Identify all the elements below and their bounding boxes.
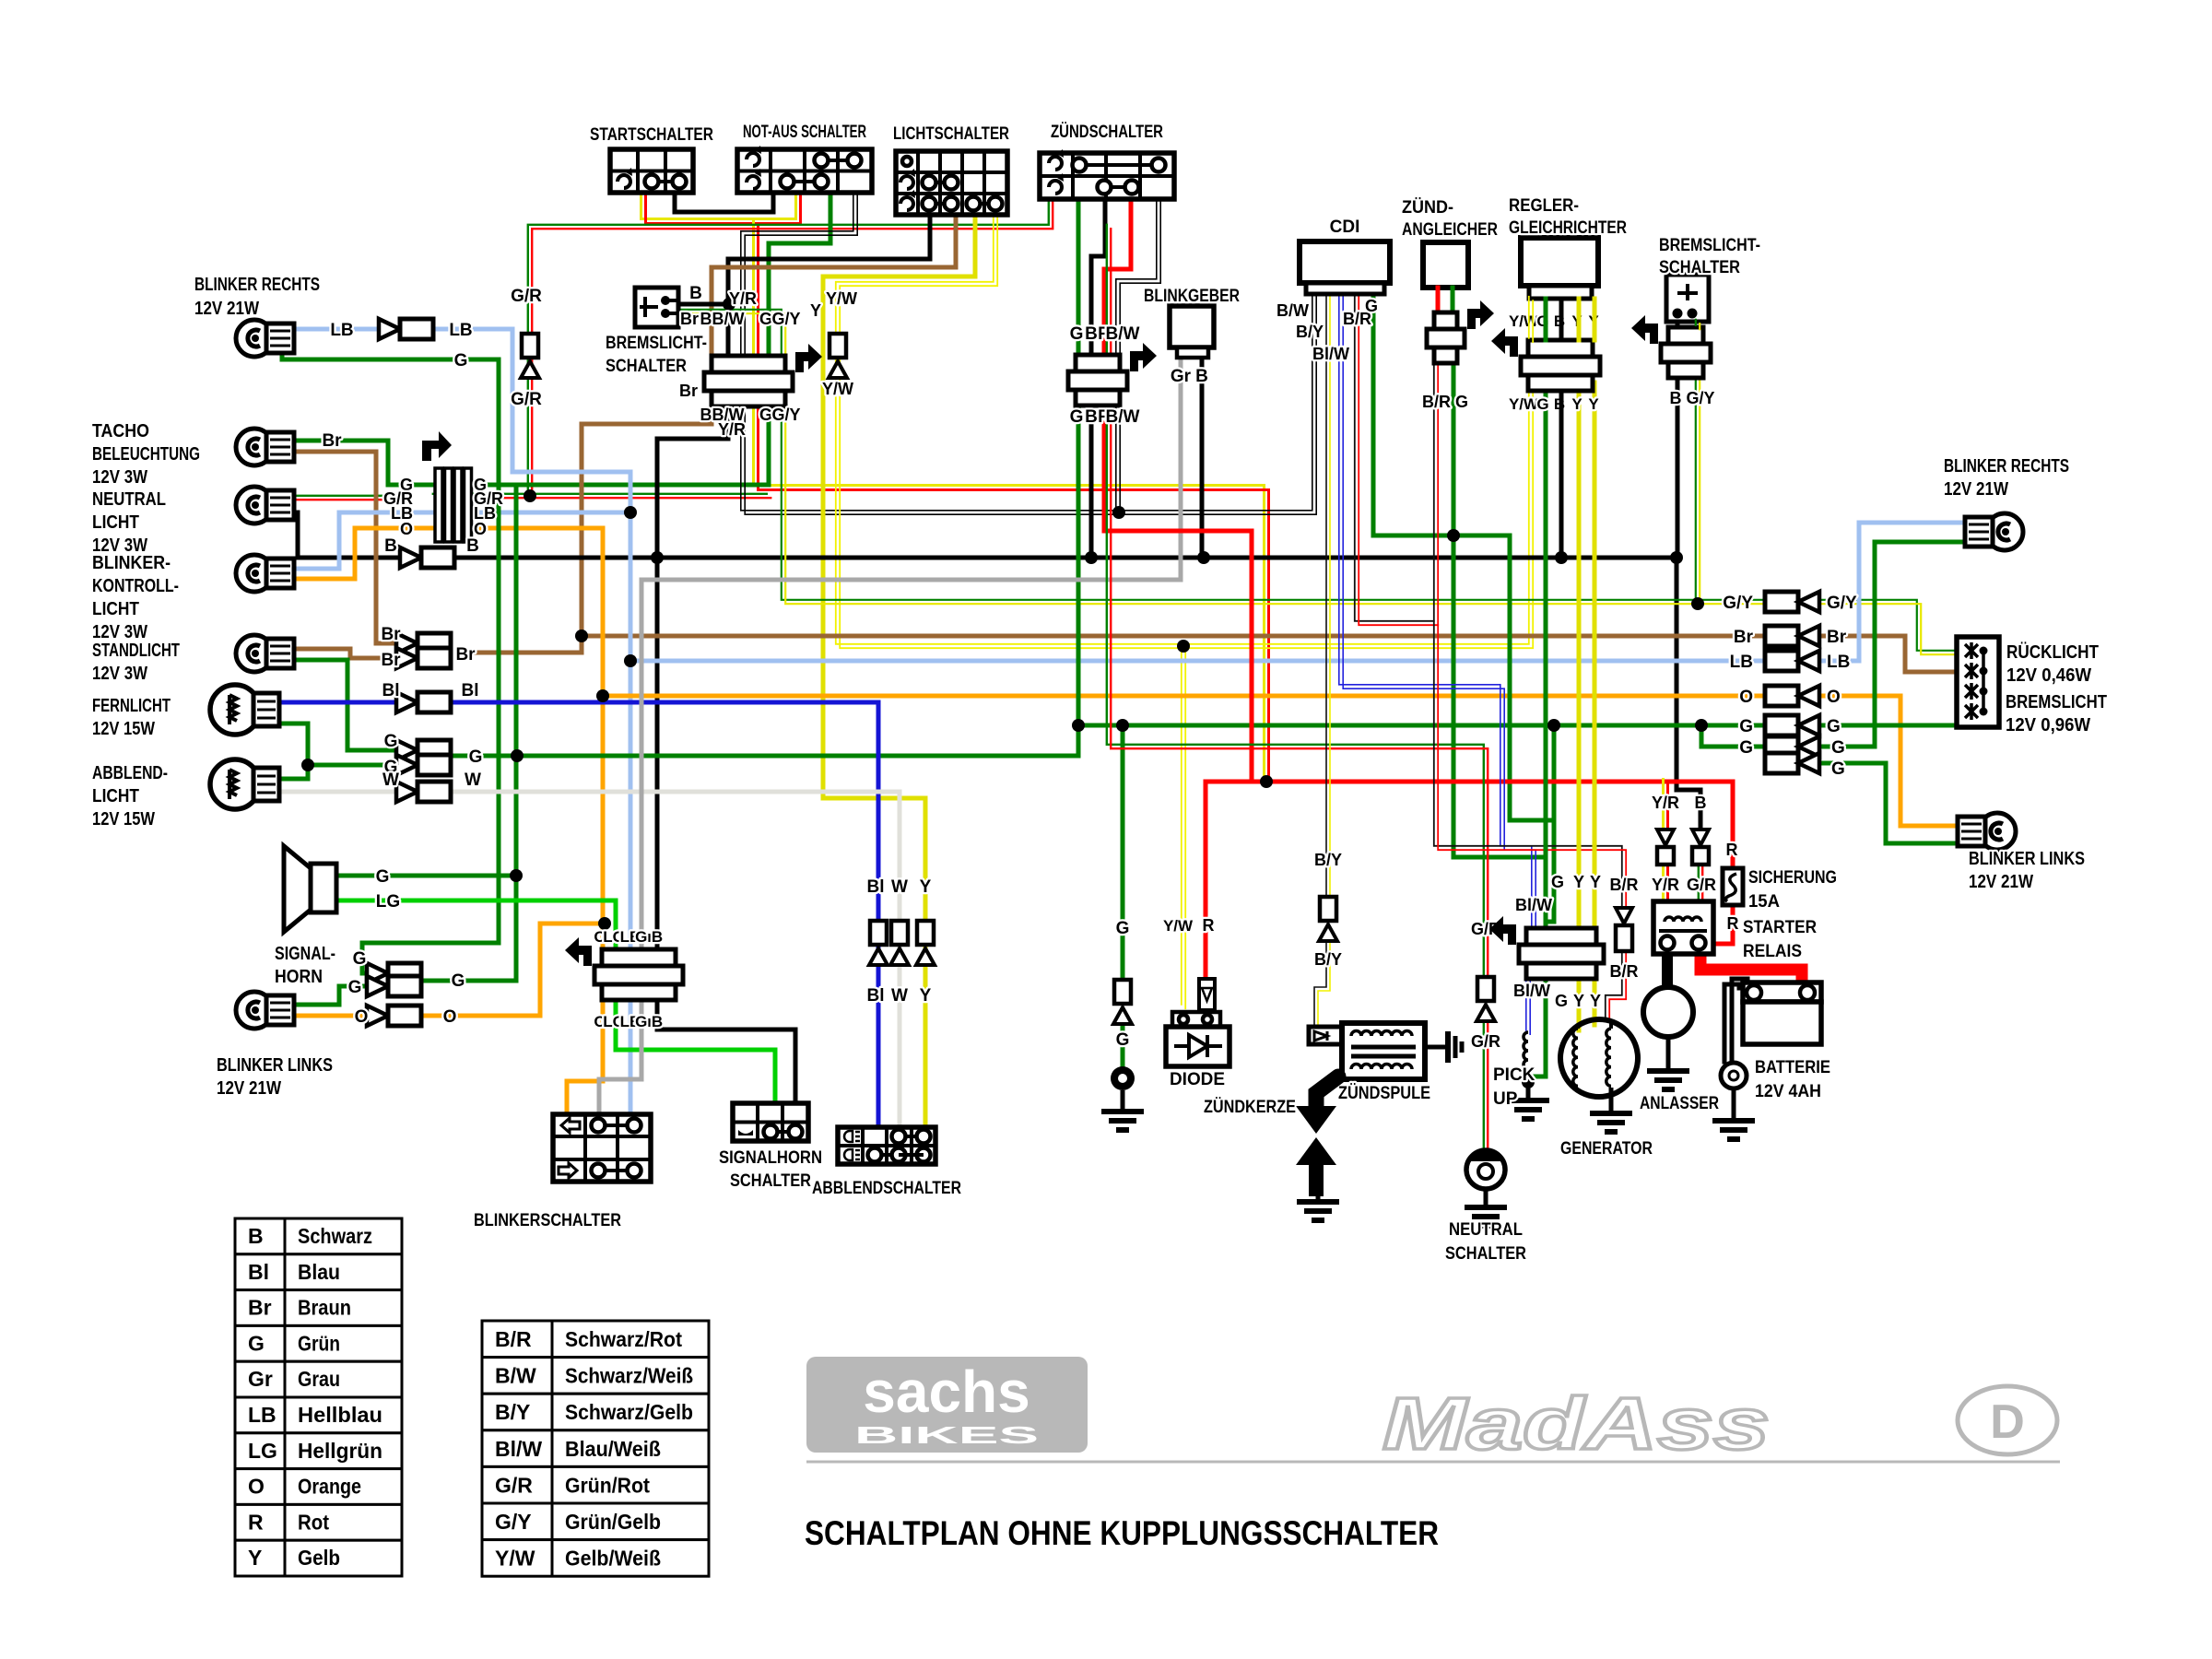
wire R branch to diode (1206, 780, 1266, 784)
svg-text:BREMSLICHT: BREMSLICHT (2006, 692, 2107, 712)
svg-text:SCHALTER: SCHALTER (1659, 258, 1740, 277)
connector LB inline (379, 319, 400, 339)
wire G tacho (276, 441, 435, 485)
svg-text:BELEUCHTUNG: BELEUCHTUNG (92, 444, 200, 465)
connector B inline (400, 547, 421, 568)
lamp FERNLICHT (210, 685, 260, 735)
wire O blinker-kontroll to connector (276, 528, 435, 579)
svg-text:W: W (465, 771, 481, 790)
svg-text:Br: Br (381, 651, 401, 670)
wire LB blinker rechts (276, 327, 391, 332)
wire B/W zuendschalter drop (1116, 197, 1157, 511)
svg-text:Y: Y (920, 877, 932, 897)
connector handlebar 5pin (712, 356, 785, 372)
lamp BLINKER LINKS right (1979, 813, 2016, 850)
wire G fernlicht-abblend (276, 724, 308, 779)
svg-text:Y/W: Y/W (826, 289, 857, 308)
svg-text:G: G (348, 978, 362, 997)
svg-text:Y: Y (1590, 992, 1601, 1010)
connector anglicher (1434, 312, 1457, 329)
svg-text:Y: Y (248, 1546, 262, 1570)
component NEUTRAL SCHALTER (1466, 1150, 1505, 1189)
wire Br trunk (465, 636, 1767, 653)
lamp BLINKER-KONTROLL-LICHT (236, 555, 273, 592)
svg-text:G/Y: G/Y (1723, 594, 1753, 613)
svg-text:STARTER: STARTER (1743, 918, 1817, 937)
connector B/R column (1616, 908, 1632, 924)
connector G double horn (367, 963, 388, 983)
svg-text:D: D (1990, 1395, 2025, 1449)
svg-text:TACHO: TACHO (92, 421, 149, 441)
svg-text:Br: Br (381, 625, 401, 644)
svg-text:Bl: Bl (248, 1260, 269, 1284)
svg-text:Br: Br (679, 382, 698, 400)
svg-text:B/R: B/R (1610, 962, 1639, 981)
svg-text:Schwarz: Schwarz (298, 1224, 372, 1248)
wire Y/W branch to diode (1181, 644, 1182, 1005)
svg-text:BLINKER RECHTS: BLINKER RECHTS (194, 275, 320, 295)
wire LG horn to signalhorn switch (336, 900, 775, 1103)
svg-text:12V 0,96W: 12V 0,96W (2006, 715, 2090, 735)
wire R anglicher upper (1436, 288, 1441, 313)
svg-text:Y/W: Y/W (495, 1547, 535, 1571)
svg-text:Y: Y (1573, 992, 1584, 1010)
svg-text:LB: LB (449, 321, 472, 340)
svg-text:Rot: Rot (298, 1510, 329, 1534)
svg-text:Y/W: Y/W (822, 380, 853, 398)
svg-text:Blau/Weiß: Blau/Weiß (565, 1437, 661, 1461)
svg-text:SICHERUNG: SICHERUNG (1748, 868, 1837, 888)
svg-text:Schwarz/Gelb: Schwarz/Gelb (565, 1400, 693, 1424)
wire R zuendschalter to fuse (1104, 269, 1733, 868)
svg-text:Braun: Braun (298, 1296, 351, 1320)
wire G blinker rechts long (282, 348, 499, 973)
component GENERATOR (1560, 1019, 1638, 1097)
svg-text:G: G (1831, 759, 1845, 779)
component RUECKLICHT-BREMSLICHT box (1957, 637, 1999, 727)
svg-text:Schwarz/Weiß: Schwarz/Weiß (565, 1364, 693, 1388)
svg-text:G/Y: G/Y (1827, 594, 1857, 613)
svg-text:LICHTSCHALTER: LICHTSCHALTER (893, 124, 1009, 144)
svg-text:G: G (759, 310, 772, 328)
svg-text:G: G (1739, 717, 1753, 736)
svg-text:G/Y: G/Y (1686, 389, 1714, 407)
svg-text:LG: LG (376, 892, 400, 912)
svg-text:B: B (1670, 389, 1682, 407)
svg-text:Br: Br (455, 645, 476, 665)
wire B/Y CDI to zuendspule (1325, 292, 1327, 895)
svg-text:BLINKGEBER: BLINKGEBER (1144, 287, 1240, 306)
svg-text:G: G (454, 351, 468, 371)
wire R diode drop (1204, 782, 1208, 979)
svg-text:Grün/Rot: Grün/Rot (565, 1473, 650, 1497)
svg-text:B/Y: B/Y (1314, 851, 1342, 869)
svg-text:Y: Y (810, 301, 821, 320)
lamp NEUTRAL LICHT (236, 487, 273, 524)
component BLINKGEBER (1170, 306, 1214, 347)
svg-text:RÜCKLICHT: RÜCKLICHT (2006, 641, 2099, 663)
svg-text:Y/W: Y/W (1509, 395, 1539, 413)
wire B bremslicht-schalter left (678, 302, 728, 307)
svg-text:12V 0,46W: 12V 0,46W (2006, 665, 2091, 686)
svg-text:12V 3W: 12V 3W (92, 664, 147, 684)
switch NOT-AUS SCHALTER (737, 149, 872, 193)
svg-text:O: O (400, 520, 413, 538)
wire B regler to trunk (1559, 299, 1564, 340)
svg-text:G: G (1551, 873, 1564, 891)
svg-text:Bl: Bl (462, 681, 479, 700)
svg-text:12V 15W: 12V 15W (92, 719, 155, 739)
connector Bl inline (396, 692, 418, 712)
svg-text:B/W: B/W (1106, 324, 1140, 344)
wire G notaus down (470, 193, 830, 485)
svg-text:G: G (1739, 738, 1753, 758)
svg-text:LB: LB (248, 1403, 276, 1427)
connector G ground inline (1114, 980, 1131, 1004)
svg-text:Bl: Bl (867, 877, 885, 897)
component STARTER RELAIS (1653, 901, 1713, 954)
svg-text:G: G (759, 406, 772, 424)
svg-text:BLINKER RECHTS: BLINKER RECHTS (1944, 456, 2069, 477)
svg-text:STANDLICHT: STANDLICHT (92, 641, 180, 661)
wire B/R CDI to anglicher net (1355, 292, 1434, 621)
svg-text:R: R (1727, 914, 1739, 933)
svg-text:Blau: Blau (298, 1260, 340, 1284)
svg-text:G: G (1555, 992, 1568, 1010)
svg-text:Grün/Gelb: Grün/Gelb (565, 1510, 661, 1534)
svg-text:G/R: G/R (1687, 876, 1716, 894)
svg-text:G/R: G/R (511, 287, 542, 306)
svg-text:SIGNALHORN: SIGNALHORN (719, 1148, 822, 1168)
connector generator harness (1526, 928, 1596, 945)
svg-text:Gelb/Weiß: Gelb/Weiß (565, 1547, 661, 1571)
wire B startschalter-notaus link (675, 193, 773, 212)
svg-text:B/R: B/R (1610, 876, 1639, 894)
lamp TACHO BELEUCHTUNG (236, 429, 273, 465)
connector G double right (1765, 736, 1798, 757)
connectors right column inline (1765, 592, 1798, 612)
svg-text:Bl/W: Bl/W (495, 1437, 542, 1461)
svg-text:B: B (248, 1224, 264, 1248)
svg-text:G/Y: G/Y (495, 1510, 532, 1534)
svg-text:LB: LB (1827, 653, 1850, 672)
svg-text:12V 15W: 12V 15W (92, 809, 155, 829)
svg-text:B/Y: B/Y (1296, 323, 1324, 341)
junction dots (524, 489, 536, 502)
wire G zuendschalter-CDI net (1373, 294, 1554, 820)
component DIODE (1172, 1012, 1220, 1027)
wire G anglicher down (1453, 363, 1546, 857)
wire thick R battery cable (1700, 951, 1802, 988)
svg-text:ANLASSER: ANLASSER (1640, 1094, 1719, 1113)
svg-text:LICHT: LICHT (92, 599, 139, 619)
connector W inline (396, 782, 418, 802)
wire G/Y trunk (677, 310, 1765, 600)
svg-text:SIGNAL-: SIGNAL- (275, 944, 335, 964)
svg-text:SCHALTER: SCHALTER (1445, 1244, 1526, 1264)
svg-text:R: R (1203, 916, 1215, 935)
component BLINKERSCHALTER (553, 1114, 651, 1182)
svg-text:G: G (1827, 717, 1841, 736)
svg-text:ANGLEICHER: ANGLEICHER (1402, 220, 1498, 240)
svg-text:LG: LG (248, 1439, 277, 1463)
svg-text:Bl/W: Bl/W (1515, 896, 1552, 914)
connector harness OLGLBGrB (602, 949, 676, 966)
svg-text:UP: UP (1493, 1089, 1518, 1109)
lamp ABBLEND-LICHT (210, 759, 260, 809)
svg-text:STARTSCHALTER: STARTSCHALTER (590, 125, 713, 145)
svg-text:G: G (376, 867, 390, 887)
svg-text:Grün: Grün (298, 1331, 340, 1355)
svg-text:PICK: PICK (1493, 1065, 1535, 1085)
svg-text:G/Y: G/Y (771, 406, 800, 424)
svg-text:Bl: Bl (382, 681, 400, 700)
svg-text:B/R G: B/R G (1422, 393, 1468, 411)
svg-text:ZÜNDSPULE: ZÜNDSPULE (1338, 1084, 1430, 1103)
component PICK UP coil (1524, 1032, 1528, 1078)
svg-text:NEUTRAL: NEUTRAL (92, 489, 166, 510)
svg-text:G: G (1365, 297, 1378, 315)
connector O inline (367, 1006, 388, 1026)
wire G drop to ground connector (1121, 725, 1125, 980)
svg-text:SCHALTER: SCHALTER (606, 357, 687, 376)
component BATTERIE (1743, 982, 1821, 1002)
svg-text:Y: Y (1573, 873, 1584, 891)
lamp STANDLICHT (236, 635, 273, 672)
svg-text:KONTROLL-: KONTROLL- (92, 576, 179, 596)
component BREMSLICHT-SCHALTER left (635, 288, 678, 327)
wire B blinkgeber (1200, 358, 1205, 558)
wire G drop right to generator connector (1546, 725, 1554, 928)
svg-text:SCHALTER: SCHALTER (730, 1171, 811, 1191)
wire W abblend trunk (276, 790, 406, 794)
component BREMSLICHT-SCHALTER right (1666, 275, 1709, 322)
svg-text:B/Y: B/Y (495, 1400, 530, 1424)
connector G/R inline vertical (522, 334, 538, 358)
lamp BLINKER RECHTS right (1986, 513, 2023, 550)
svg-text:G: G (1070, 324, 1084, 344)
svg-text:G: G (1070, 407, 1084, 427)
svg-text:R: R (248, 1510, 264, 1534)
svg-text:sachs: sachs (863, 1359, 1030, 1425)
svg-text:B: B (384, 536, 397, 556)
svg-text:W: W (891, 877, 908, 897)
svg-text:B/W: B/W (1277, 301, 1309, 320)
svg-text:BLINKER-: BLINKER- (92, 553, 171, 573)
svg-text:12V 21W: 12V 21W (1944, 479, 2008, 500)
wire G/R relais segment (1698, 863, 1700, 900)
svg-text:15A: 15A (1748, 892, 1780, 912)
svg-text:B: B (1195, 367, 1208, 386)
svg-text:G/Y: G/Y (771, 310, 800, 328)
svg-text:NEUTRAL: NEUTRAL (1449, 1220, 1523, 1240)
svg-text:LICHT: LICHT (92, 512, 139, 533)
wire Y Y regler to generator (1577, 382, 1582, 1030)
svg-text:Y: Y (1590, 873, 1601, 891)
svg-text:ZÜND-: ZÜND- (1402, 198, 1453, 218)
legend table color combos (482, 1321, 709, 1358)
wire R fuse to relais (1715, 905, 1733, 944)
wire G left out to trunk (451, 199, 1078, 756)
legend table colors (235, 1218, 402, 1254)
svg-text:Gr: Gr (248, 1367, 273, 1391)
wire Y/R drop to relais (1662, 780, 1665, 828)
svg-text:ZÜNDSCHALTER: ZÜNDSCHALTER (1051, 123, 1163, 142)
svg-text:GENERATOR: GENERATOR (1560, 1139, 1653, 1159)
svg-text:B: B (652, 1013, 663, 1030)
wire G regler segment upper (1544, 299, 1548, 340)
svg-text:W: W (382, 771, 399, 790)
logo SACHS BIKES (806, 1357, 1088, 1453)
wire B lichtschalter down (657, 215, 930, 1103)
svg-text:MadAss: MadAss (1382, 1382, 1770, 1465)
svg-text:DIODE: DIODE (1170, 1070, 1225, 1089)
wire G trunk right (1078, 724, 1957, 728)
wire G anglicher upper (1451, 288, 1455, 313)
svg-text:12V 3W: 12V 3W (92, 622, 147, 642)
wire G regler to pickup ground (1544, 382, 1548, 928)
wire Y/R startschalter to junction (641, 191, 796, 219)
svg-text:ABBLENDSCHALTER: ABBLENDSCHALTER (812, 1179, 961, 1198)
wire R zuendschalter upper jog (1104, 199, 1131, 269)
svg-text:W: W (891, 986, 908, 1006)
svg-text:12V 3W: 12V 3W (92, 467, 147, 488)
svg-text:BATTERIE: BATTERIE (1755, 1058, 1830, 1077)
svg-text:Br: Br (248, 1296, 272, 1320)
wire Br lichtschalter down (582, 215, 956, 636)
svg-text:O: O (443, 1007, 457, 1027)
wire O vertical and trunk (470, 528, 603, 1114)
wire B right drop to relais (1677, 558, 1700, 829)
svg-text:BREMSLICHT-: BREMSLICHT- (606, 334, 707, 353)
svg-text:BIKES: BIKES (854, 1421, 1039, 1449)
svg-text:B: B (652, 928, 663, 946)
svg-text:Bl/W: Bl/W (1513, 982, 1550, 1000)
svg-text:12V 4AH: 12V 4AH (1755, 1082, 1821, 1101)
wire G right blinker branch (1701, 725, 1767, 747)
svg-text:Br: Br (322, 431, 342, 451)
ground G wire (1121, 1090, 1125, 1104)
svg-text:BLINKERSCHALTER: BLINKERSCHALTER (474, 1211, 621, 1230)
svg-text:G: G (248, 1331, 265, 1355)
svg-text:Y: Y (920, 986, 932, 1006)
svg-text:G: G (384, 732, 398, 751)
svg-text:ZÜNDKERZE: ZÜNDKERZE (1204, 1098, 1296, 1117)
switch LICHTSCHALTER (896, 151, 1007, 215)
svg-text:B: B (1085, 324, 1098, 344)
wire G double out to right bulbs (1806, 542, 1964, 747)
svg-text:Schwarz/Rot: Schwarz/Rot (565, 1327, 682, 1351)
svg-text:NOT-AUS SCHALTER: NOT-AUS SCHALTER (743, 123, 866, 142)
connector regler (1528, 340, 1593, 357)
wire B neutral lamp trunk (276, 512, 1677, 558)
connector bremslicht right (1668, 327, 1703, 344)
component CDI (1300, 241, 1390, 283)
svg-text:BLINKER LINKS: BLINKER LINKS (217, 1055, 333, 1076)
svg-text:CDI: CDI (1330, 218, 1360, 237)
wire B battery minus cable (1732, 979, 1747, 1062)
logo D oval (1958, 1386, 2057, 1454)
svg-text:Y/W: Y/W (1163, 917, 1194, 935)
svg-text:G: G (353, 949, 367, 969)
svg-text:B: B (700, 406, 712, 424)
wire B bremslicht-schalter right (1676, 322, 1680, 558)
svg-text:B: B (1695, 794, 1707, 812)
svg-text:Hellblau: Hellblau (298, 1403, 382, 1427)
svg-text:O: O (474, 520, 487, 538)
svg-text:O: O (1827, 688, 1841, 707)
svg-text:Gelb: Gelb (298, 1546, 340, 1570)
connector 4pin left (435, 468, 442, 542)
wire Br tacho drop (276, 452, 406, 643)
svg-text:G: G (1536, 395, 1548, 413)
svg-text:Y/W: Y/W (1509, 312, 1539, 330)
wire Y/W regler segment upper (1528, 297, 1530, 338)
svg-text:12V 21W: 12V 21W (217, 1078, 281, 1099)
svg-text:12V 21W: 12V 21W (194, 299, 259, 319)
svg-text:Y/R: Y/R (1652, 876, 1679, 894)
svg-text:R: R (1726, 841, 1738, 859)
component SIGNALHORN SCHALTER (733, 1103, 808, 1141)
switch STARTSCHALTER (610, 149, 693, 193)
svg-text:O: O (248, 1475, 265, 1499)
svg-text:B/W: B/W (495, 1364, 536, 1388)
connectors relais column (1657, 829, 1674, 845)
terminal ring G (1111, 1066, 1135, 1090)
svg-text:G: G (452, 971, 465, 991)
wire G connector out to vertical (422, 979, 516, 983)
svg-text:Hellgrün: Hellgrün (298, 1439, 382, 1463)
wire G/Y bremslicht right drop (1695, 320, 1697, 602)
svg-text:G: G (1831, 738, 1845, 758)
svg-text:GLEICHRICHTER: GLEICHRICHTER (1509, 218, 1627, 238)
wire G blinker links to connector (278, 986, 379, 1005)
svg-text:O: O (1739, 688, 1753, 707)
component ZUEND-ANGLEICHER (1423, 242, 1468, 288)
svg-text:LICHT: LICHT (92, 786, 139, 806)
svg-text:Y: Y (1571, 395, 1583, 413)
connector zuendschalter harness (1076, 355, 1120, 371)
svg-text:RELAIS: RELAIS (1743, 942, 1802, 961)
svg-text:LB: LB (1730, 653, 1753, 672)
wire LB trunk (630, 659, 1767, 664)
connector Br double (396, 633, 418, 653)
svg-text:Gr: Gr (1171, 367, 1192, 386)
component REGLER-GLEICHRICHTER (1521, 238, 1598, 286)
wire Y/W lichtschalter to regler (836, 213, 1529, 644)
wire Br standlicht (276, 649, 406, 658)
svg-text:ABBLEND-: ABBLEND- (92, 763, 168, 783)
wire G/R to neutral schalter (1107, 225, 1484, 975)
svg-text:O: O (355, 1007, 369, 1027)
svg-text:B: B (700, 310, 712, 328)
svg-text:REGLER-: REGLER- (1509, 196, 1579, 216)
wire G horn (336, 874, 516, 878)
svg-text:Y/R: Y/R (729, 289, 757, 308)
svg-text:BLINKER LINKS: BLINKER LINKS (1969, 849, 2085, 869)
svg-text:Bl: Bl (867, 986, 885, 1006)
svg-text:SCHALTPLAN OHNE KUPPLUNGSSCHAL: SCHALTPLAN OHNE KUPPLUNGSSCHALTER (805, 1514, 1439, 1552)
connectors Bl W Y vertical (870, 921, 887, 945)
svg-text:Y/R: Y/R (1652, 794, 1679, 812)
svg-text:B/Y: B/Y (1314, 950, 1342, 969)
connector G double left (396, 740, 418, 760)
svg-text:B: B (1085, 407, 1098, 427)
lamp BLINKER LINKS left (236, 992, 273, 1029)
svg-text:B: B (466, 536, 479, 556)
component SICHERUNG fuse (1723, 868, 1743, 905)
svg-text:Bl/W: Bl/W (1312, 345, 1349, 363)
